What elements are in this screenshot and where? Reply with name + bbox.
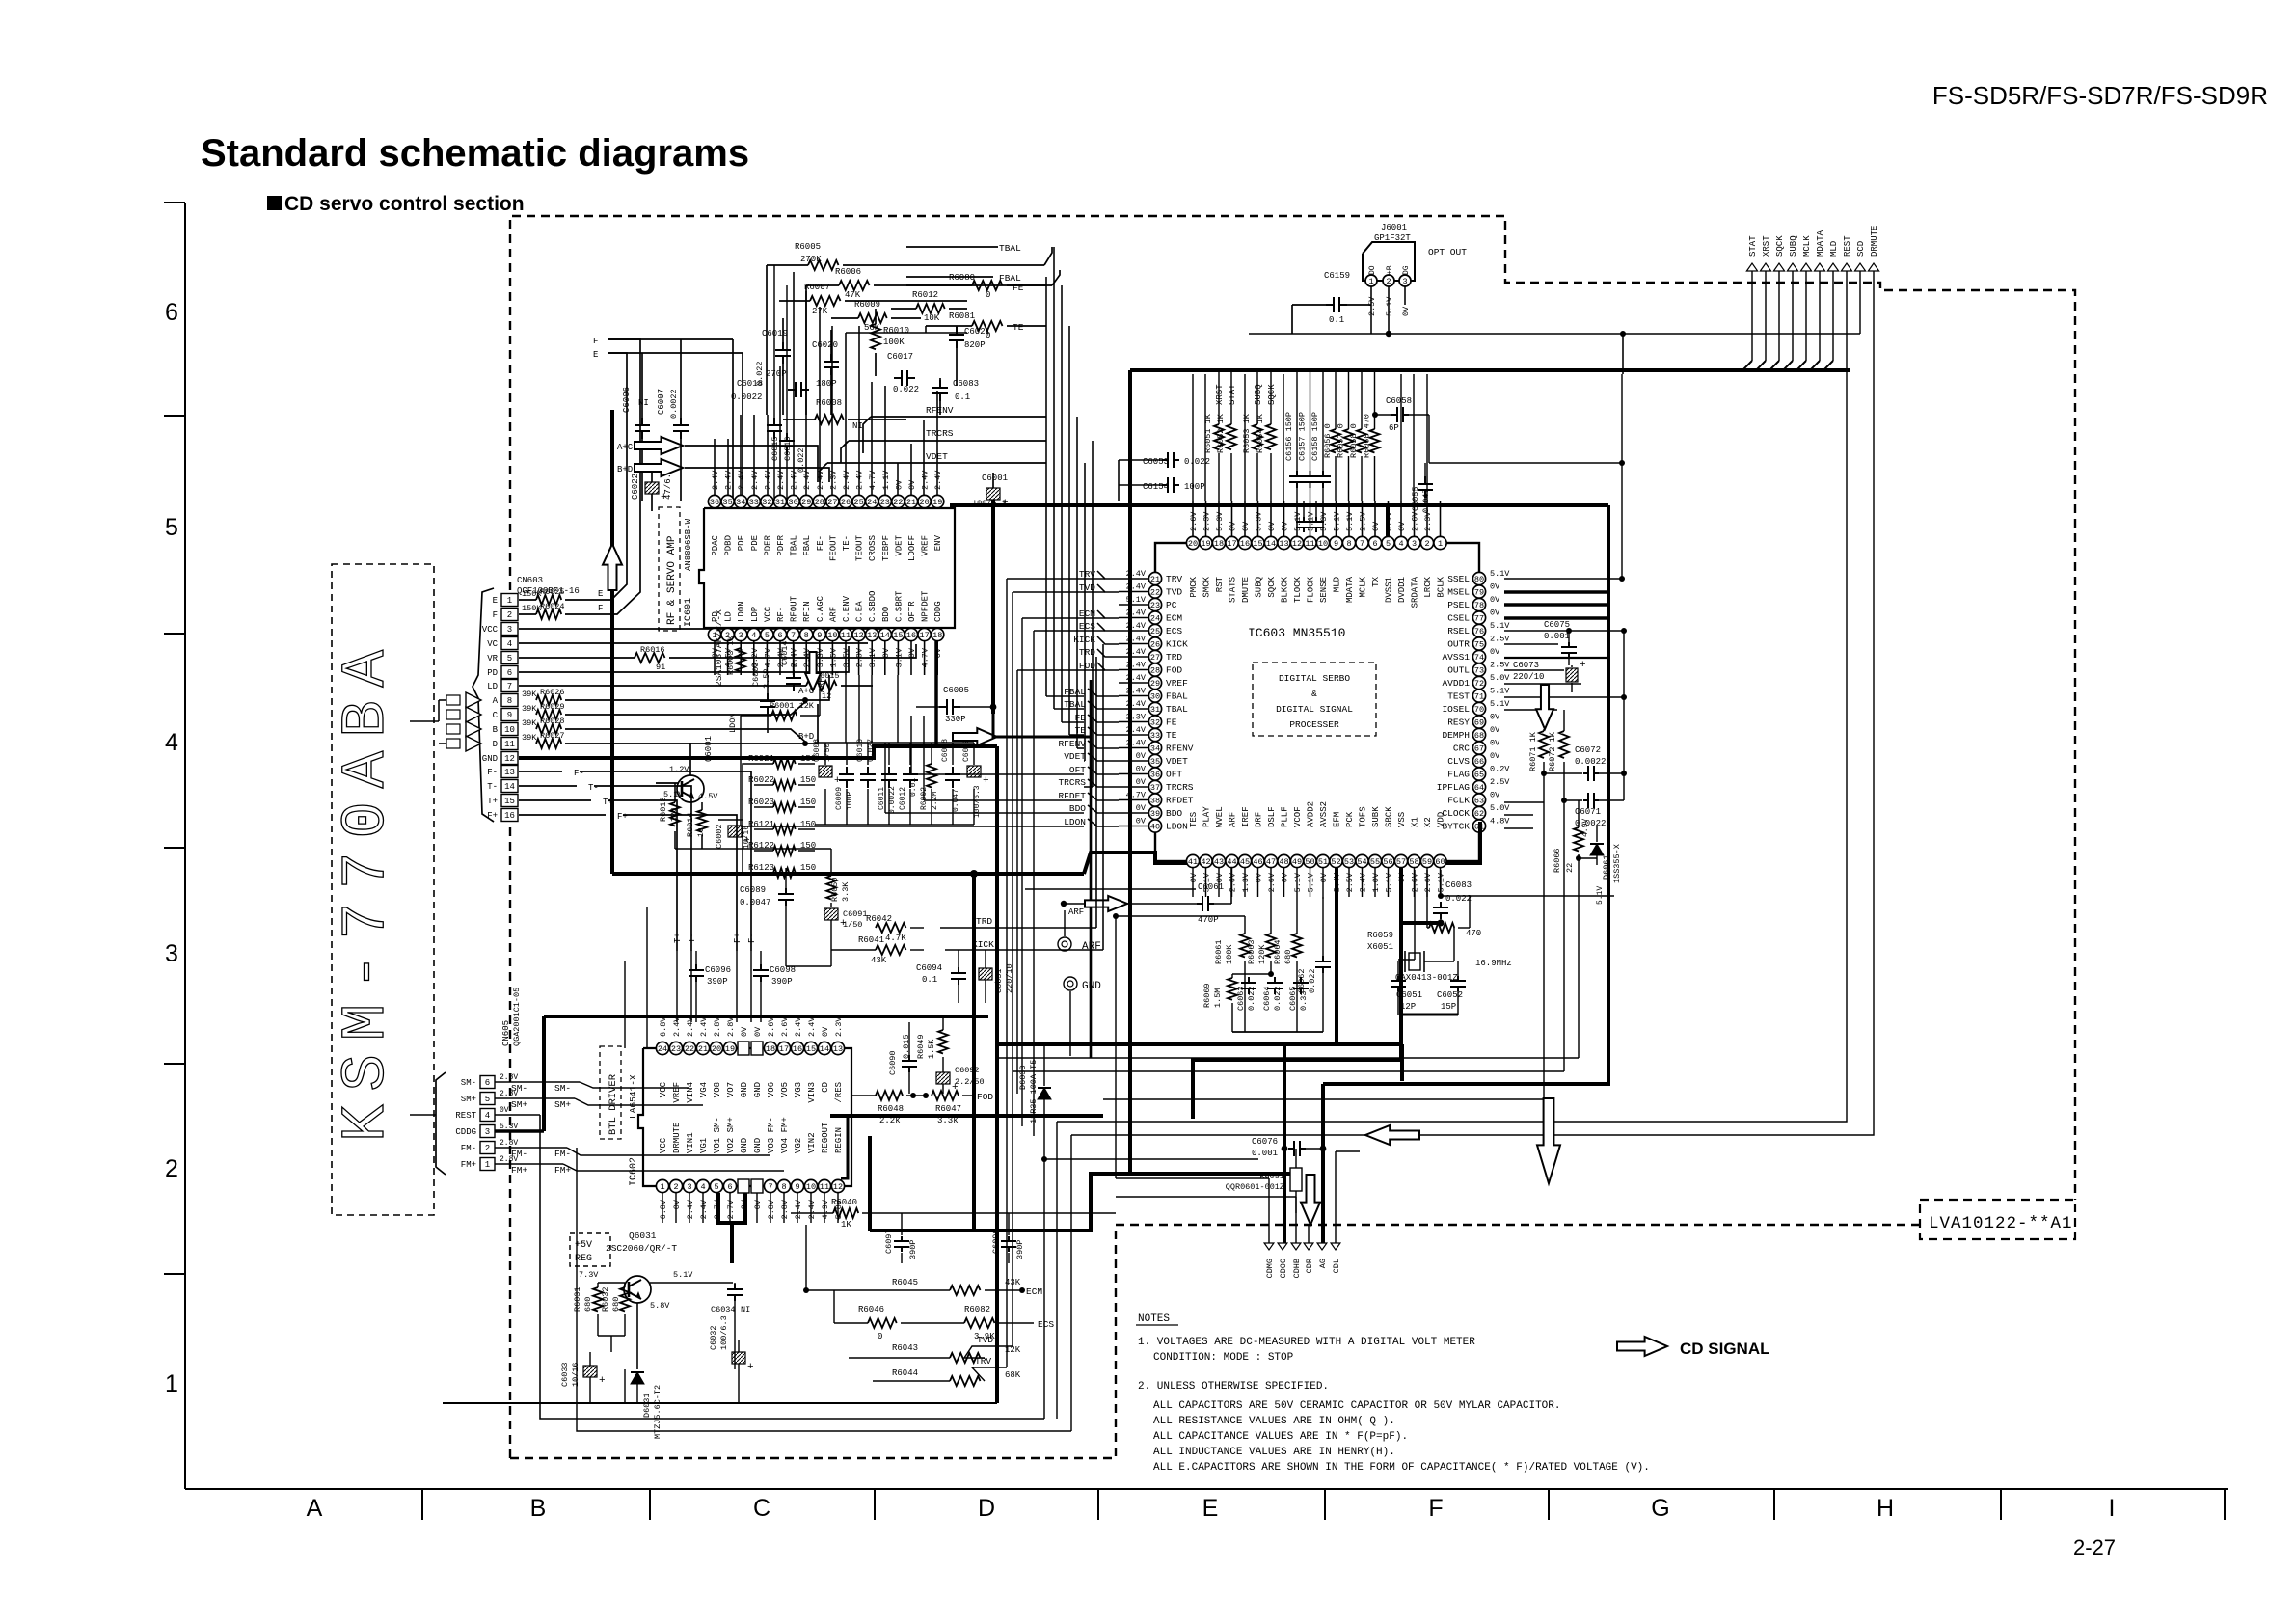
wire to R6045 row	[805, 1225, 807, 1290]
wire OUTL	[1504, 669, 1564, 671]
svg-text:0V: 0V	[1401, 306, 1411, 316]
svg-text:5: 5	[507, 654, 512, 663]
svg-text:60: 60	[1435, 857, 1445, 867]
svg-text:20: 20	[1188, 539, 1198, 549]
IC603 pin 63	[1472, 794, 1485, 806]
svg-text:30: 30	[788, 498, 797, 507]
svg-text:TRV: TRV	[1166, 574, 1182, 584]
svg-text:IC603 MN35510: IC603 MN35510	[1248, 626, 1345, 640]
IC601 pin 6	[773, 628, 786, 640]
svg-text:25: 25	[853, 498, 863, 507]
svg-text:FE: FE	[1013, 283, 1024, 293]
svg-text:2.4V: 2.4V	[711, 470, 720, 490]
svg-text:34: 34	[736, 498, 745, 507]
svg-text:TRCRS: TRCRS	[926, 428, 954, 439]
svg-text:FE: FE	[1075, 713, 1087, 723]
svg-text:2.4V: 2.4V	[672, 1016, 682, 1037]
svg-text:820P: 820P	[964, 340, 986, 350]
CN605 pin 1 FM+	[480, 1158, 495, 1171]
svg-text:0V: 0V	[1490, 725, 1500, 735]
IC601 pin 13	[866, 628, 878, 640]
svg-text:LD: LD	[724, 611, 734, 622]
cd arrow up on bus	[603, 544, 622, 590]
svg-text:22: 22	[1565, 863, 1575, 873]
svg-text:VDD: VDD	[1437, 812, 1446, 827]
svg-text:11: 11	[820, 1182, 829, 1192]
CN605 bracket	[436, 1072, 446, 1175]
svg-text:0.022: 0.022	[755, 361, 765, 386]
IC601 bottom pin stubs	[714, 641, 716, 675]
svg-text:D: D	[493, 740, 498, 749]
IC601 pin 7	[787, 628, 799, 640]
IC603 pin 38	[1148, 794, 1161, 806]
svg-text:28: 28	[815, 498, 824, 507]
svg-text:TRD: TRD	[1166, 652, 1182, 663]
svg-text:NI: NI	[741, 1305, 750, 1314]
IC601 pin 12	[852, 628, 865, 640]
svg-text:51: 51	[1318, 857, 1328, 867]
svg-text:0V: 0V	[753, 1199, 763, 1209]
svg-text:RST: RST	[1215, 576, 1225, 592]
IC602 top pin 16	[791, 1042, 803, 1054]
svg-text:2.5V: 2.5V	[1490, 777, 1510, 787]
svg-text:71: 71	[1474, 691, 1484, 701]
svg-text:50: 50	[1305, 857, 1314, 867]
svg-text:R6021: R6021	[748, 754, 774, 764]
svg-text:REST: REST	[1843, 235, 1852, 257]
svg-text:KICK: KICK	[1073, 635, 1095, 645]
signal arrows STAT..DRMUTE	[1746, 263, 1757, 271]
svg-text:A: A	[493, 696, 499, 706]
IC603 pin 21	[1148, 572, 1161, 584]
svg-text:20: 20	[712, 1044, 721, 1054]
svg-text:R6006: R6006	[835, 267, 861, 277]
svg-text:VCC: VCC	[482, 625, 499, 635]
svg-text:IOSEL: IOSEL	[1442, 704, 1470, 715]
IC603 pin 32	[1148, 716, 1161, 728]
IC603 pin 1	[1434, 536, 1446, 549]
thick bus IC602 to right	[830, 1114, 1103, 1118]
svg-text:DSLF: DSLF	[1267, 806, 1277, 827]
svg-text:2: 2	[1424, 539, 1429, 549]
svg-text:FBAL: FBAL	[1166, 691, 1188, 702]
svg-text:C6072: C6072	[1575, 745, 1601, 755]
svg-text:7.3V: 7.3V	[579, 1270, 599, 1280]
gnd run bottom left	[443, 1402, 997, 1404]
svg-text:DO: DO	[1368, 265, 1377, 275]
GND ring terminal	[1064, 977, 1077, 990]
IC603 pin 16	[1238, 536, 1251, 549]
svg-text:13: 13	[867, 631, 877, 640]
thick vertical x1454 down from bus	[1400, 1044, 1404, 1081]
svg-text:25: 25	[1150, 627, 1160, 636]
svg-text:68K: 68K	[1005, 1370, 1021, 1380]
svg-text:2.4V: 2.4V	[750, 470, 760, 490]
IC602 top pin 17	[777, 1042, 790, 1054]
svg-text:R6031: R6031	[573, 1286, 582, 1312]
svg-text:0V: 0V	[1136, 817, 1147, 826]
svg-text:2.5V: 2.5V	[1359, 511, 1368, 531]
svg-text:2.4V: 2.4V	[737, 470, 746, 490]
svg-text:VIN1: VIN1	[686, 1132, 695, 1153]
CN603 pin 8 A	[501, 694, 518, 707]
svg-text:WVEL: WVEL	[1215, 806, 1225, 827]
svg-text:C6083: C6083	[1445, 880, 1472, 890]
ARF ring terminal	[1058, 937, 1071, 951]
svg-text:TRD: TRD	[976, 916, 992, 927]
IC603 pin 20	[1186, 536, 1199, 549]
svg-text:SBCK: SBCK	[1385, 806, 1394, 827]
svg-text:SRDATA: SRDATA	[1411, 576, 1420, 608]
svg-text:R6048: R6048	[878, 1104, 904, 1114]
wire ECS feed	[1034, 630, 1105, 632]
svg-text:66: 66	[1474, 757, 1484, 767]
svg-text:26: 26	[1150, 639, 1160, 649]
svg-text:2.4V: 2.4V	[686, 1016, 695, 1037]
zener diode D6031 MTZJ5.6C-T2	[631, 1372, 644, 1384]
svg-text:STAT: STAT	[1228, 384, 1237, 405]
CN603 pin 2 F	[501, 609, 518, 621]
svg-text:5.1V: 5.1V	[1490, 687, 1510, 696]
svg-text:0V: 0V	[1281, 872, 1290, 882]
IC603 pin 73	[1472, 663, 1485, 676]
svg-text:2.6V: 2.6V	[1411, 511, 1420, 531]
svg-text:EFM: EFM	[1333, 812, 1342, 827]
svg-text:DVSS1: DVSS1	[1385, 577, 1394, 603]
svg-text:DRF: DRF	[1255, 812, 1264, 827]
svg-text:C.SBDO: C.SBDO	[868, 591, 878, 622]
svg-text:C6015: C6015	[770, 436, 780, 461]
svg-text:CDDG: CDDG	[933, 601, 943, 622]
svg-text:NPFDET: NPFDET	[921, 590, 931, 622]
svg-text:R6049: R6049	[916, 1034, 926, 1059]
svg-text:T-: T-	[688, 933, 697, 943]
IC601 pin 8	[800, 628, 813, 640]
IC603 pin 14	[1264, 536, 1277, 549]
svg-text:DRMUTE: DRMUTE	[1870, 226, 1879, 257]
svg-text:2.4V: 2.4V	[686, 1199, 695, 1219]
svg-text:ECS: ECS	[1166, 626, 1182, 636]
svg-text:2.5V: 2.5V	[1345, 872, 1355, 892]
IC601 pin 10	[826, 628, 839, 640]
svg-text:VO5: VO5	[780, 1082, 790, 1097]
CN605 pin 2 FM-	[480, 1142, 495, 1154]
svg-text:12: 12	[504, 754, 515, 764]
IC603 pin 15	[1252, 536, 1264, 549]
svg-text:VCOF: VCOF	[1293, 806, 1303, 827]
IC602 bottom pin 11	[818, 1179, 830, 1192]
svg-text:CDOG: CDOG	[1279, 1259, 1288, 1278]
board code box LVA10122-**A1	[1920, 1200, 2075, 1239]
svg-text:C6083: C6083	[953, 379, 979, 389]
svg-text:RESY: RESY	[1447, 717, 1470, 728]
svg-text:4: 4	[507, 639, 512, 649]
svg-text:2.4V: 2.4V	[842, 470, 851, 490]
svg-text:150: 150	[800, 775, 816, 785]
svg-text:17: 17	[779, 1044, 789, 1054]
svg-text:17: 17	[1227, 539, 1236, 549]
svg-text:47K: 47K	[845, 290, 861, 300]
IC603 pin 57	[1394, 854, 1407, 867]
svg-text:11: 11	[841, 631, 851, 640]
thick wire CSEL	[1504, 616, 1608, 620]
svg-text:2.8V: 2.8V	[500, 1090, 518, 1098]
vertical bus wires under IC601 top pins	[714, 439, 716, 495]
svg-text:1. VOLTAGES ARE DC-MEASURED WI: 1. VOLTAGES ARE DC-MEASURED WITH A DIGIT…	[1138, 1337, 1475, 1348]
svg-text:C.ENV: C.ENV	[842, 595, 851, 622]
svg-text:RFDET: RFDET	[1166, 796, 1194, 806]
thick bus from IC601 right to DVSS1	[950, 503, 1608, 507]
svg-text:4: 4	[485, 1111, 490, 1121]
svg-text:1: 1	[1368, 277, 1373, 286]
CN603 pin 12 GND	[501, 752, 518, 765]
svg-text:100P: 100P	[1184, 482, 1205, 492]
thick wire MSEL	[1504, 590, 1608, 594]
svg-text:2.8V: 2.8V	[780, 1199, 790, 1219]
svg-text:F-: F-	[487, 768, 498, 777]
IC601 pin 32	[761, 495, 773, 507]
svg-text:46: 46	[1253, 857, 1262, 867]
wires cluster verticals down	[1543, 773, 1545, 1099]
svg-text:VG3: VG3	[794, 1082, 803, 1097]
svg-text:R6057 0: R6057 0	[1337, 423, 1346, 458]
svg-text:2.8V: 2.8V	[500, 1155, 518, 1164]
svg-text:DIGITAL SERBO: DIGITAL SERBO	[1279, 673, 1350, 684]
svg-text:5.1V: 5.1V	[673, 1270, 693, 1280]
svg-text:C6065: C6065	[1288, 986, 1298, 1011]
svg-text:RF & SERVO AMP: RF & SERVO AMP	[666, 535, 678, 625]
svg-text:0: 0	[878, 1332, 882, 1341]
svg-text:PD: PD	[487, 668, 498, 678]
svg-text:R6007: R6007	[804, 283, 830, 292]
svg-text:CD servo control section: CD servo control section	[284, 193, 525, 215]
svg-text:24: 24	[1150, 613, 1160, 623]
IC603 pin 26	[1148, 637, 1161, 650]
IC603 pin 6	[1368, 536, 1381, 549]
svg-text:15: 15	[504, 797, 515, 806]
svg-text:C6001: C6001	[982, 474, 1008, 483]
svg-text:1: 1	[1438, 539, 1443, 549]
svg-text:5.8V: 5.8V	[650, 1301, 670, 1311]
thick wire VDD pin60	[1446, 822, 1480, 863]
svg-text:41: 41	[1188, 857, 1198, 867]
CN603 pin 4 VC	[501, 637, 518, 650]
svg-text:B+D: B+D	[798, 732, 814, 742]
svg-text:R6123: R6123	[748, 863, 774, 873]
IC602 top pin 24	[656, 1042, 668, 1054]
svg-text:C6064: C6064	[1262, 986, 1272, 1011]
capacitor C6031 220/10	[979, 968, 992, 980]
node B+D	[565, 729, 805, 742]
wires cap row	[815, 742, 974, 744]
svg-text:3: 3	[687, 1182, 691, 1192]
IC603 pin 75	[1472, 637, 1485, 650]
svg-text:SUBK: SUBK	[1371, 806, 1381, 827]
IC601 pin 24	[866, 495, 878, 507]
svg-text:0V: 0V	[1255, 872, 1264, 882]
svg-text:C: C	[753, 1495, 770, 1522]
svg-text:PLAY: PLAY	[1202, 806, 1212, 827]
svg-text:VDET: VDET	[1166, 756, 1188, 767]
svg-text:5: 5	[1386, 539, 1391, 549]
svg-text:22: 22	[685, 1044, 694, 1054]
svg-text:IC601: IC601	[684, 598, 694, 627]
IC603 pin 78	[1472, 598, 1485, 610]
svg-text:C6094: C6094	[916, 963, 942, 973]
CN603 pin 11 D	[501, 738, 518, 750]
svg-text:TRV: TRV	[975, 1356, 991, 1367]
svg-text:5.1V: 5.1V	[1490, 699, 1510, 709]
svg-text:2.4V: 2.4V	[921, 470, 931, 490]
svg-text:IREF: IREF	[1241, 806, 1251, 827]
svg-text:R6040: R6040	[831, 1198, 857, 1207]
svg-text:GND: GND	[1082, 981, 1101, 992]
svg-text:C6159: C6159	[1324, 271, 1350, 281]
svg-text:+: +	[1580, 660, 1586, 671]
svg-text:ALL CAPACITANCE VALUES ARE IN: ALL CAPACITANCE VALUES ARE IN * F(P=pF).	[1153, 1431, 1408, 1443]
wire TBAL to DSP	[906, 246, 998, 248]
svg-text:0V: 0V	[1490, 713, 1500, 722]
svg-text:SSEL: SSEL	[1447, 574, 1470, 584]
IC602 top pin GND	[738, 1042, 749, 1055]
svg-text:CN603: CN603	[517, 576, 543, 585]
svg-text:44: 44	[1227, 857, 1236, 867]
cd arrow right into DSP area	[953, 728, 997, 745]
svg-text:8: 8	[1346, 539, 1351, 549]
svg-text:1K: 1K	[841, 1220, 851, 1230]
svg-text:5.3V: 5.3V	[1255, 511, 1264, 531]
wires OFT RFDET BDO LDON from amp area	[911, 773, 1084, 775]
svg-text:TRCRS: TRCRS	[1058, 777, 1086, 788]
svg-text:TBAL: TBAL	[1064, 699, 1086, 710]
IC603 pin 50	[1304, 854, 1316, 867]
svg-text:0: 0	[986, 290, 990, 300]
svg-text:TLOCK: TLOCK	[1293, 576, 1303, 603]
resistor R6010 100K	[871, 324, 880, 349]
svg-text:6: 6	[485, 1078, 490, 1088]
IC603 pin 62	[1472, 806, 1485, 819]
svg-text:43: 43	[1214, 857, 1224, 867]
cd signal legend	[1617, 1337, 1667, 1356]
CN603 pin 6 PD	[501, 666, 518, 679]
svg-text:1: 1	[660, 1182, 664, 1192]
IC603 pin 19	[1200, 536, 1212, 549]
svg-text:CROSS: CROSS	[868, 535, 878, 561]
svg-text:R6026: R6026	[540, 688, 565, 697]
svg-text:R6009: R6009	[854, 300, 880, 310]
svg-text:39K: 39K	[522, 690, 537, 699]
svg-text:PDE: PDE	[750, 535, 760, 551]
wire TRCRS	[849, 440, 1046, 442]
IC603 pin 22	[1148, 585, 1161, 598]
wire kick run	[831, 949, 876, 951]
wire FOD feed	[1017, 669, 1105, 671]
svg-text:R6061: R6061	[1214, 939, 1224, 964]
svg-text:49: 49	[1292, 857, 1302, 867]
svg-text:0.1: 0.1	[791, 653, 800, 667]
svg-text:T+: T+	[487, 797, 498, 806]
svg-text:VIN4: VIN4	[686, 1082, 695, 1103]
svg-text:C6075: C6075	[1544, 620, 1570, 630]
svg-text:R6047: R6047	[935, 1104, 961, 1114]
svg-text:0.001: 0.001	[1544, 632, 1570, 641]
svg-text:0V: 0V	[1490, 595, 1500, 605]
capacitor C6034 NI	[734, 1284, 736, 1289]
IC603 pin 10	[1316, 536, 1329, 549]
svg-text:C6002: C6002	[715, 824, 724, 849]
svg-text:T+: T+	[673, 933, 683, 943]
svg-text:DIGITAL SIGNAL: DIGITAL SIGNAL	[1276, 704, 1353, 715]
wire DRMUTE bottom run	[577, 1148, 1071, 1431]
svg-text:C6158 150P: C6158 150P	[1310, 412, 1320, 461]
svg-text:0V: 0V	[1136, 803, 1147, 813]
svg-text:42: 42	[1201, 857, 1210, 867]
thick horizontal y1083	[997, 1042, 1402, 1046]
wire REST long	[1057, 271, 1847, 1122]
svg-text:VO2 SM+: VO2 SM+	[726, 1117, 736, 1153]
svg-text:0V: 0V	[1319, 872, 1329, 882]
svg-text:PLLF: PLLF	[1281, 806, 1290, 827]
svg-text:6: 6	[507, 668, 512, 678]
svg-text:SMCK: SMCK	[1202, 576, 1212, 597]
svg-text:0V: 0V	[1229, 521, 1238, 531]
IC601 pin 9	[813, 628, 825, 640]
wires TRD KICK to DSP bundle	[940, 927, 1096, 929]
svg-text:C6033: C6033	[560, 1362, 570, 1387]
svg-text:1SS355-X: 1SS355-X	[1612, 844, 1622, 883]
svg-text:30: 30	[1150, 691, 1160, 701]
svg-text:ALL CAPACITORS ARE 50V CERAMIC: ALL CAPACITORS ARE 50V CERAMIC CAPACITOR…	[1153, 1400, 1560, 1412]
svg-text:0V: 0V	[740, 1026, 749, 1037]
svg-text:0V: 0V	[933, 647, 943, 658]
svg-text:DRMUTE: DRMUTE	[672, 1123, 682, 1153]
svg-text:0.1: 0.1	[955, 392, 970, 402]
svg-text:14: 14	[1266, 539, 1276, 549]
IC602 top pin 21	[696, 1042, 709, 1054]
svg-text:SM-: SM-	[461, 1078, 476, 1088]
svg-text:54: 54	[1357, 857, 1366, 867]
svg-text:R6024: R6024	[540, 602, 565, 611]
IC601 pin 34	[735, 495, 747, 507]
IC603 pin 79	[1472, 585, 1485, 598]
svg-text:0V: 0V	[1397, 521, 1407, 531]
svg-text:33: 33	[1150, 731, 1160, 741]
svg-text:FM+: FM+	[461, 1160, 476, 1170]
svg-text:13: 13	[1279, 539, 1288, 549]
svg-text:+: +	[599, 1375, 606, 1387]
IC601 pin 17	[918, 628, 931, 640]
bottom frame ruler	[185, 1488, 2228, 1490]
svg-text:100K: 100K	[883, 338, 905, 347]
DSP function dashed box	[1253, 663, 1376, 736]
svg-text:MDATA: MDATA	[1345, 576, 1355, 603]
svg-text:TX: TX	[1371, 576, 1381, 586]
wire VDET	[827, 462, 1046, 464]
resistor R6016 91	[519, 657, 635, 659]
svg-text:GND: GND	[753, 1138, 763, 1153]
svg-text:0V: 0V	[821, 1026, 830, 1037]
IC602 bottom pin 1	[656, 1179, 668, 1192]
IC601 pin 18	[932, 628, 944, 640]
svg-text:R6082: R6082	[964, 1305, 990, 1314]
svg-text:BTL DRIVER: BTL DRIVER	[608, 1073, 619, 1135]
wire gnd bottom	[624, 1369, 626, 1403]
svg-text:59: 59	[1422, 857, 1432, 867]
svg-text:R6043: R6043	[892, 1343, 918, 1353]
IC603 pin 61	[1472, 820, 1485, 832]
svg-text:19: 19	[932, 498, 942, 507]
svg-text:3: 3	[507, 625, 512, 635]
